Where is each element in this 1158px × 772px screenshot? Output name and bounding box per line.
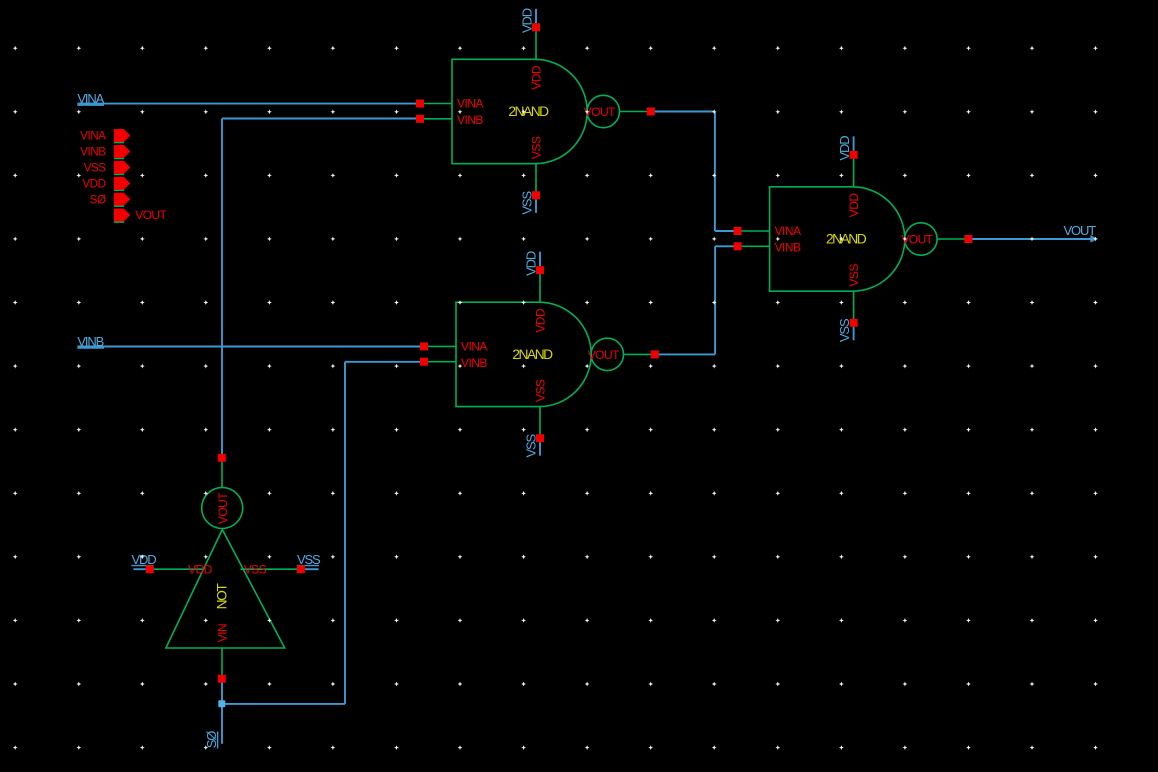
net label VDD above U1 (519, 8, 534, 33)
U2 output bubble circle (591, 338, 623, 370)
U3 pin label VSS (rotated) (847, 264, 861, 287)
U1 pin label VDD (rotated) (530, 65, 544, 90)
U1 pin label VINA (457, 97, 483, 111)
U3 input pin stub VINA (738, 230, 770, 232)
U2 VSS pin stub (539, 407, 541, 439)
schematic input pin VINA arrow (114, 129, 130, 143)
net wire stub VDD left of U4 (133, 568, 145, 570)
net label VINB (77, 334, 103, 349)
net label S0 (rotated) (204, 731, 219, 749)
2NAND gate U3 body (770, 187, 905, 291)
open wire end arrow VOUT (1090, 235, 1097, 243)
schematic input pin VINB label (80, 147, 106, 159)
U1 output bubble circle (587, 95, 619, 127)
wire U1 output to U3.VINA (651, 112, 738, 232)
net wire stub VSS below U3 (853, 327, 855, 341)
U4 output circle (202, 488, 243, 529)
U3 VINA pin square (734, 227, 742, 235)
U2 pin label VSS (rotated) (534, 379, 548, 402)
U1 pin label VINB (457, 113, 483, 127)
U4 output pin square (218, 454, 226, 462)
U2 output pin square (651, 350, 659, 358)
net label VDD above U3 (837, 136, 852, 161)
U4 pin label VOUT (rotated, in circle) (216, 492, 230, 524)
U1 VDD pin square (532, 23, 540, 31)
schematic input pin VINA label (80, 131, 106, 143)
net wire stub VDD above U3 (853, 136, 855, 151)
net label VSS below U1 (519, 191, 534, 215)
U4 pin label VDD (188, 562, 213, 576)
U4 input pin square (218, 675, 226, 683)
U2 VSS pin square (536, 434, 544, 442)
U1 input pin stub VINB (420, 118, 452, 120)
U3 output pin stub (937, 238, 968, 240)
net label VSS below U3 (837, 318, 852, 342)
U1 VINA pin square (416, 100, 424, 108)
U3 pin label VOUT (901, 233, 933, 247)
schematic input pin VINB arrow (114, 145, 130, 159)
wire U2 output to U3.VINB (655, 246, 738, 354)
U2 VINB pin square (420, 358, 428, 366)
U2 input pin stub VINA (424, 345, 456, 347)
U3 cell name 2NAND (826, 232, 867, 247)
U4 pin label VSS (244, 562, 267, 576)
U3 VSS pin square (850, 319, 858, 327)
U2 output pin stub (624, 353, 655, 355)
U3 pin label VINA (775, 224, 801, 238)
U1 output pin stub (620, 111, 651, 113)
schematic input pin VDD label (82, 178, 105, 190)
U3 input pin stub VINB (738, 245, 770, 247)
net wire stub VSS below U1 (535, 199, 537, 213)
U2 pin label VOUT (588, 348, 620, 362)
U2 pin label VDD (rotated) (534, 308, 548, 333)
schematic input pin VSS label (84, 163, 107, 175)
U1 pin label VSS (rotated) (530, 136, 544, 159)
U4 cell name NOT (rotated) (215, 583, 230, 610)
U3 pin label VINB (775, 241, 801, 255)
U1 VINB pin square (416, 115, 424, 123)
schematic input pin SØ arrow (114, 193, 130, 207)
wire net S0: NOT input down, junction, to U2.VINB (222, 362, 424, 744)
net label VSS at U4 (297, 552, 321, 567)
U3 output bubble circle (905, 223, 937, 255)
U2 VDD pin square (536, 266, 544, 274)
wire net VINA horizontal to U1.VINA (77, 104, 420, 106)
2NAND gate U1 body (452, 59, 587, 163)
wire NOT output to U1.VINB (vertical + horizontal) (222, 119, 420, 458)
U2 VINA pin square (420, 342, 428, 350)
net label VOUT (1064, 223, 1097, 238)
U4 VDD pin square (146, 565, 154, 573)
schematic output pin VOUT arrow (114, 209, 130, 223)
net label VSS below U2 (523, 433, 538, 457)
wire U3 output to VOUT (968, 238, 1093, 240)
net wire stub VSS below U2 (539, 442, 541, 456)
wire net VINB horizontal to U2.VINA (77, 347, 424, 349)
U1 VSS pin stub (535, 164, 537, 196)
U3 VDD pin stub (853, 155, 855, 187)
net label VDD above U2 (523, 251, 538, 276)
2NAND gate U2 body (456, 302, 591, 406)
U2 pin label VINB (461, 356, 487, 370)
schematic input pin SØ label (90, 194, 106, 206)
U1 pin label VOUT (584, 105, 616, 119)
U4 output pin stub (top) (221, 458, 223, 488)
U4 VDD pin stub (left) (150, 568, 204, 570)
net wire stub VDD above U2 (539, 252, 541, 267)
U3 VINB pin square (734, 242, 742, 250)
net label VINA (77, 91, 104, 106)
net wire stub VDD above U1 (535, 9, 537, 23)
U2 input pin stub VINB (424, 361, 456, 363)
U4 VSS pin stub (right) (241, 568, 301, 570)
U4 pin label VIN (rotated) (215, 624, 229, 642)
U3 VDD pin square (850, 151, 858, 159)
U1 input pin stub VINA (420, 103, 452, 105)
U1 cell name 2NAND (508, 104, 549, 119)
schematic input pin VSS arrow (114, 161, 130, 175)
junction dot on S0 net (218, 700, 225, 707)
U3 pin label VDD (rotated) (847, 193, 861, 218)
NOT gate U4 triangle body (166, 530, 285, 649)
net label VDD at U4 (132, 552, 157, 567)
U2 cell name 2NAND (512, 347, 553, 362)
U4 input pin stub (bottom) (221, 648, 223, 676)
U1 output pin square (647, 108, 655, 116)
schematic output pin VOUT label (135, 208, 167, 222)
net wire stub VSS right of U4 (305, 568, 319, 570)
U2 pin label VINA (461, 340, 487, 354)
U3 output pin square (964, 235, 972, 243)
U3 VSS pin stub (853, 291, 855, 323)
U1 VSS pin square (532, 191, 540, 199)
schematic input pin VDD arrow (114, 177, 130, 191)
U2 VDD pin stub (539, 270, 541, 302)
U1 VDD pin stub (535, 27, 537, 59)
U4 VSS pin square (297, 565, 305, 573)
